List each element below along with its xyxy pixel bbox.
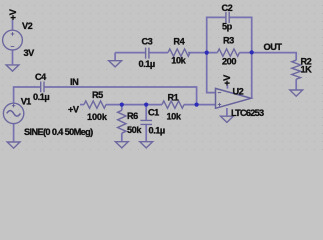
svg-text:LTC6253: LTC6253 xyxy=(231,108,264,118)
svg-text:IN: IN xyxy=(70,77,79,87)
svg-text:10k: 10k xyxy=(167,112,182,122)
svg-text:0.1µ: 0.1µ xyxy=(149,126,165,136)
svg-text:5p: 5p xyxy=(222,22,233,32)
svg-text:200: 200 xyxy=(222,57,236,67)
svg-text:+V: +V xyxy=(8,8,18,20)
svg-text:+V: +V xyxy=(68,105,80,115)
svg-text:1K: 1K xyxy=(301,65,313,75)
svg-text:3V: 3V xyxy=(24,48,36,58)
svg-text:50k: 50k xyxy=(127,125,142,135)
svg-text:C2: C2 xyxy=(222,3,233,13)
svg-text:V2: V2 xyxy=(22,21,33,31)
svg-text:R3: R3 xyxy=(223,36,234,46)
svg-text:U2: U2 xyxy=(233,87,244,97)
svg-text:C3: C3 xyxy=(142,37,153,47)
svg-text:V1: V1 xyxy=(21,97,31,107)
svg-text:C4: C4 xyxy=(35,72,47,82)
svg-text:10k: 10k xyxy=(171,56,186,66)
svg-text:100k: 100k xyxy=(87,112,108,122)
svg-text:R5: R5 xyxy=(92,90,103,100)
svg-text:R1: R1 xyxy=(168,93,179,103)
svg-text:+V: +V xyxy=(222,74,232,86)
svg-text:C1: C1 xyxy=(148,108,159,118)
svg-text:0.1µ: 0.1µ xyxy=(33,92,49,102)
svg-text:OUT: OUT xyxy=(264,42,283,52)
svg-text:0.1µ: 0.1µ xyxy=(139,59,155,69)
svg-text:R6: R6 xyxy=(127,111,138,121)
svg-text:R4: R4 xyxy=(173,37,185,47)
svg-text:SINE(0 0.4 50Meg): SINE(0 0.4 50Meg) xyxy=(24,127,93,137)
